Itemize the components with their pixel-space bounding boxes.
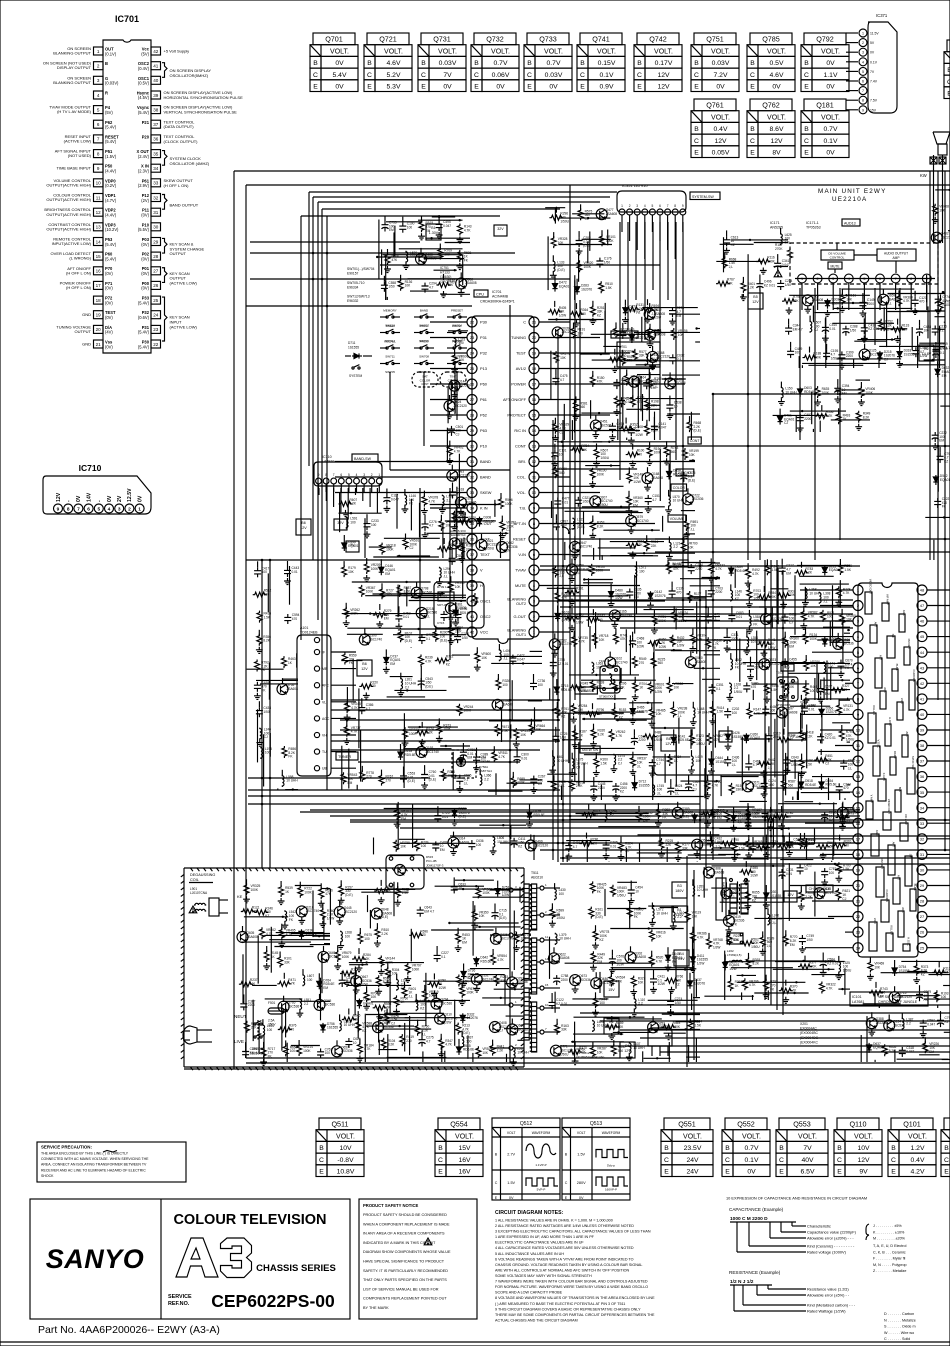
wire	[919, 1054, 940, 1056]
wire	[778, 803, 837, 805]
node label CONT	[688, 437, 701, 444]
wire	[472, 901, 474, 956]
svg-text:2: 2	[128, 507, 131, 513]
svg-text:2 ALL RESISTANCE RATED WATTA: 2 ALL RESISTANCE RATED WATTAGES ARE 1/4W…	[495, 1224, 634, 1228]
resistor R581	[573, 396, 588, 420]
capacitor C735	[418, 633, 433, 644]
transistor voltage table Q731	[418, 33, 466, 92]
svg-text:KZ: KZ	[620, 790, 624, 794]
node IC101 internal block AGC	[899, 610, 906, 632]
svg-text:1.5V: 1.5V	[577, 1153, 585, 1157]
potentiometer VR406	[858, 382, 875, 406]
capacitor C539	[933, 342, 950, 353]
svg-text:100K: 100K	[810, 637, 818, 641]
wire	[944, 1031, 950, 1033]
resistor R679	[582, 804, 601, 818]
wire	[830, 667, 832, 700]
svg-text:Q101: Q101	[903, 1120, 921, 1129]
diode D277	[622, 300, 641, 324]
wire	[659, 830, 661, 846]
svg-text:T511: T511	[531, 871, 539, 875]
resistor R414	[709, 701, 724, 725]
svg-text:(EX0004DC: (EX0004DC	[800, 1036, 819, 1040]
svg-text:FK: FK	[597, 890, 602, 894]
svg-text:1/50U: 1/50U	[486, 547, 495, 551]
diode D542	[933, 474, 950, 485]
wire	[723, 237, 725, 272]
svg-text:3: 3	[832, 277, 834, 281]
svg-text:EM: EM	[389, 228, 394, 232]
svg-text:4.7K: 4.7K	[464, 228, 471, 232]
wire	[549, 688, 551, 700]
node IC351 pin 8	[672, 204, 678, 222]
svg-text:1/50U: 1/50U	[846, 738, 855, 742]
svg-text:42: 42	[153, 49, 159, 54]
svg-text:Q110: Q110	[849, 1120, 866, 1129]
wire	[331, 740, 560, 742]
svg-text:12: 12	[856, 759, 861, 764]
resistor R159	[729, 783, 743, 795]
wire	[548, 319, 604, 321]
node IC101 pin 6	[853, 663, 863, 673]
svg-text:TD0124EB: TD0124EB	[300, 631, 318, 635]
svg-text:4.7: 4.7	[366, 707, 371, 711]
svg-text:0.7V: 0.7V	[547, 60, 561, 67]
svg-text:1/2W: 1/2W	[920, 354, 927, 358]
inductor L195	[261, 747, 272, 759]
svg-text:1.1VP-P: 1.1VP-P	[535, 1163, 546, 1167]
capacitor C703	[708, 581, 723, 597]
wire	[403, 713, 405, 750]
wire	[666, 847, 668, 862]
wire	[409, 600, 466, 602]
node CIRCUIT DIAGRAM NOTES text block	[495, 1210, 655, 1322]
resistor R196	[646, 442, 662, 466]
node IC351 pin 9	[680, 204, 686, 222]
node IC101 pin 36	[917, 772, 927, 782]
wire	[551, 501, 553, 518]
node IC171 pin 4	[844, 274, 853, 310]
inductor L325	[835, 956, 852, 980]
wire	[704, 995, 754, 997]
resistor R778	[360, 766, 374, 782]
wire IC710 band pin stubs	[319, 488, 377, 519]
node CPU pin 8 AFT-IN	[514, 519, 539, 529]
resistor R377	[798, 956, 817, 970]
wire	[773, 414, 824, 416]
svg-text:1/50U: 1/50U	[617, 893, 626, 897]
node IC101 internal block VIDEO DET	[865, 579, 873, 614]
svg-text:1.5K: 1.5K	[694, 1023, 701, 1027]
svg-text:0.7V: 0.7V	[745, 1145, 759, 1152]
svg-text:TIME BASE INPUT: TIME BASE INPUT	[57, 166, 92, 171]
svg-text:4: 4	[644, 204, 646, 208]
node IC171 pin 6	[876, 274, 885, 310]
transistor Q165	[609, 609, 632, 628]
wire	[571, 420, 573, 440]
wire	[574, 280, 576, 300]
resistor R642	[757, 758, 776, 777]
node IC710 pin 1	[135, 495, 144, 513]
resistor R703	[746, 584, 763, 608]
svg-text:29: 29	[470, 428, 475, 433]
svg-text:0.01: 0.01	[610, 844, 616, 848]
node IC101 internal block ATT	[875, 655, 883, 688]
svg-text:UE2210A: UE2210A	[832, 196, 867, 203]
svg-text:2.2K: 2.2K	[381, 932, 388, 936]
svg-text:OSCILLATOR (4MHZ): OSCILLATOR (4MHZ)	[170, 161, 210, 166]
svg-text:4.7K: 4.7K	[497, 958, 504, 962]
wire	[790, 705, 830, 707]
svg-text:WAVEFORM: WAVEFORM	[532, 1131, 551, 1135]
svg-text:38: 38	[153, 107, 159, 112]
wire	[599, 972, 601, 993]
wire	[640, 1037, 950, 1039]
svg-text:7V: 7V	[443, 72, 452, 79]
svg-text:1: 1	[857, 588, 860, 593]
wire	[752, 995, 754, 1000]
capacitor C411	[511, 837, 526, 849]
resistor R284	[757, 586, 776, 600]
svg-text:0.4V: 0.4V	[911, 1157, 925, 1164]
potentiometer VR118	[380, 543, 396, 555]
node IC101 internal block H.OSC	[903, 937, 911, 951]
svg-text:FM DET: FM DET	[880, 859, 884, 870]
svg-text:BAND OUTPUT: BAND OUTPUT	[170, 202, 199, 207]
node IC101 pin 29	[917, 881, 927, 891]
node IC101 internal block FM DET	[904, 639, 911, 665]
svg-text:30: 30	[470, 444, 475, 449]
svg-text:(D,E): (D,E)	[381, 915, 388, 919]
wire	[655, 551, 950, 553]
svg-text:15V: 15V	[608, 988, 615, 992]
diode D518	[799, 774, 817, 790]
wire	[517, 1039, 524, 1041]
wire	[720, 243, 754, 245]
potentiometer VR662	[707, 733, 723, 745]
wire	[387, 1057, 447, 1059]
svg-text:0V: 0V	[335, 60, 344, 67]
svg-text:VOLT.: VOLT.	[683, 1133, 702, 1140]
resistor R160	[319, 904, 334, 928]
svg-text:1S1555: 1S1555	[904, 352, 915, 356]
svg-text:AC/N4MB: AC/N4MB	[492, 295, 509, 299]
transistor Q119	[449, 537, 470, 549]
wire	[562, 420, 564, 862]
svg-text:EM: EM	[426, 229, 431, 233]
svg-text:(D,E): (D,E)	[459, 815, 466, 819]
wire	[470, 968, 509, 970]
svg-text:FK: FK	[289, 918, 294, 922]
svg-text:CT15: CT15	[437, 621, 445, 625]
resistor R539	[667, 562, 681, 574]
wire	[743, 662, 824, 664]
svg-text:VOL.: VOL.	[517, 490, 526, 495]
svg-text:B: B	[804, 60, 809, 67]
svg-text:1/50: 1/50	[768, 783, 774, 787]
svg-text:EQA01: EQA01	[940, 478, 950, 482]
svg-text:1K: 1K	[579, 734, 584, 738]
node IC101 internal block SYNC SEP	[907, 756, 915, 794]
svg-text:10 UHH: 10 UHH	[673, 499, 685, 503]
node IC710 pin 4	[354, 473, 360, 492]
wire	[263, 1034, 265, 1062]
svg-text:(4.4V): (4.4V)	[105, 213, 117, 218]
resistor R767	[379, 770, 393, 786]
resistor R510	[599, 281, 613, 293]
svg-text:15V: 15V	[870, 108, 877, 112]
wire	[792, 797, 794, 800]
crystal X710 OSD oscillator enclosure	[434, 582, 484, 628]
svg-text:100: 100	[502, 683, 508, 687]
node IC701 pin 37 P21	[142, 120, 161, 128]
svg-text:1/50U: 1/50U	[751, 945, 760, 949]
svg-text:0.047: 0.047	[391, 497, 399, 501]
wire	[473, 896, 525, 898]
svg-text:5: 5	[97, 507, 100, 513]
wire	[431, 929, 494, 931]
svg-text:7: 7	[862, 89, 864, 93]
svg-text:TIMER: TIMER	[385, 324, 395, 328]
capacitor C683	[728, 606, 743, 622]
potentiometer VR560	[476, 886, 492, 898]
svg-text:100K: 100K	[251, 888, 259, 892]
resistor R365	[701, 808, 720, 827]
capacitor C760	[421, 765, 436, 789]
wire	[331, 709, 560, 711]
wire	[583, 579, 612, 581]
wire	[545, 207, 565, 209]
inductor L268	[802, 588, 821, 607]
svg-text:10K: 10K	[459, 358, 466, 362]
node wire junction dots	[261, 252, 947, 860]
svg-text:6.5V: 6.5V	[801, 1169, 815, 1176]
svg-text:AFT ON/OFF: AFT ON/OFF	[503, 397, 527, 402]
node CPU pin 9 T.B.	[519, 503, 539, 513]
resistor R664	[283, 1040, 297, 1056]
wire	[812, 306, 814, 323]
wire	[659, 222, 661, 440]
svg-text:(DATA OUTPUT): (DATA OUTPUT)	[164, 124, 195, 129]
wire	[573, 1033, 623, 1035]
capacitor C468	[629, 632, 644, 649]
wire	[771, 608, 773, 629]
capacitor C755	[382, 216, 397, 233]
svg-text:EM: EM	[942, 374, 947, 378]
svg-text:RD5.6E: RD5.6E	[534, 813, 545, 817]
wire	[432, 216, 455, 218]
transistor Q486	[833, 633, 854, 650]
node IC171 pin 7	[891, 274, 900, 310]
svg-text:4.7K: 4.7K	[425, 659, 432, 663]
svg-text:E: E	[694, 150, 699, 157]
wire	[563, 404, 565, 440]
wire	[494, 500, 496, 517]
svg-text:CJ: CJ	[456, 433, 460, 437]
svg-text:SERVICE: SERVICE	[168, 1294, 192, 1300]
resistor R316	[441, 769, 456, 781]
capacitor C722	[613, 378, 628, 389]
potentiometer VR425	[590, 881, 606, 894]
wire	[937, 1005, 939, 1008]
node IC101 pin 1	[853, 585, 863, 595]
svg-text:TQF-1337L: TQF-1337L	[800, 704, 816, 708]
svg-text:4.7K: 4.7K	[715, 567, 722, 571]
svg-text:PROG: PROG	[420, 340, 430, 344]
wire	[441, 1045, 443, 1062]
svg-text:KE: KE	[237, 894, 243, 899]
resistor R401	[740, 277, 755, 301]
resistor R436	[257, 611, 271, 623]
svg-text:TUNING: TUNING	[511, 335, 526, 340]
wire	[400, 628, 461, 630]
resistor R465	[803, 680, 818, 704]
node SYSTEM-SW label	[690, 192, 720, 200]
wire	[788, 863, 790, 921]
transistor Q648	[371, 908, 392, 920]
svg-text:H7133: H7133	[440, 271, 450, 275]
diode D211	[822, 564, 839, 575]
svg-text:VOLT.: VOLT.	[711, 114, 730, 121]
svg-text:10K: 10K	[656, 934, 663, 938]
svg-text:47K: 47K	[597, 380, 604, 384]
wire	[917, 336, 919, 368]
svg-text:OUT1: OUT1	[516, 633, 526, 637]
diode D753	[495, 881, 513, 898]
diode D356	[819, 701, 837, 717]
wire	[603, 345, 621, 347]
svg-text:24V: 24V	[686, 1157, 699, 1164]
node IC701 pin 31 P11	[141, 208, 160, 218]
wire	[477, 926, 520, 928]
resistor R124	[415, 722, 434, 746]
capacitor C792	[750, 837, 765, 853]
svg-text:AREA, CONNECT AN ISOLATING TRA: AREA, CONNECT AN ISOLATING TRANSFORMER B…	[41, 1163, 147, 1167]
svg-text:27: 27	[153, 269, 159, 274]
svg-text:(0V): (0V)	[141, 242, 149, 247]
svg-text:J,L: J,L	[560, 574, 564, 578]
svg-text:1/2W: 1/2W	[658, 982, 665, 986]
svg-text:1.5V: 1.5V	[507, 1181, 515, 1185]
transistor voltage table Q104	[941, 1118, 950, 1177]
resistor R722	[614, 322, 628, 338]
svg-text:1/50U: 1/50U	[601, 456, 610, 460]
inductor L354	[744, 631, 763, 655]
svg-text:J . . . . . . . . . ±5%: J . . . . . . . . . ±5%	[873, 1224, 902, 1228]
node IC710 pin 2	[125, 488, 134, 513]
resistor R577	[632, 349, 646, 361]
svg-text:WAVEFORM: WAVEFORM	[602, 1131, 621, 1135]
node TUNER label	[336, 752, 358, 760]
wire	[801, 703, 803, 729]
svg-text:0.1: 0.1	[940, 351, 945, 355]
svg-text:B: B	[750, 126, 755, 133]
resistor R265	[555, 587, 569, 603]
svg-text:E: E	[421, 84, 426, 91]
resistor R382	[655, 803, 670, 827]
node supply rail B4 24V	[674, 950, 689, 966]
wire	[408, 278, 471, 280]
wire	[817, 302, 868, 304]
wire	[899, 364, 945, 366]
svg-text:26: 26	[470, 382, 475, 387]
wire	[404, 1023, 406, 1052]
svg-text:1: 1	[138, 507, 141, 513]
potentiometer VR300	[783, 632, 799, 649]
wire	[797, 564, 850, 566]
svg-text:0.05V: 0.05V	[712, 150, 730, 157]
wire	[688, 1045, 690, 1062]
svg-text:100: 100	[770, 709, 776, 713]
svg-text:2200: 2200	[773, 735, 780, 739]
svg-text:VOLUME: VOLUME	[670, 517, 685, 521]
svg-text:C: C	[637, 72, 642, 79]
inductor L262 LT369 label	[727, 949, 743, 962]
svg-text:PROG.: PROG.	[452, 324, 462, 328]
node IC101 internal block ATT	[893, 875, 901, 904]
wire	[926, 275, 928, 303]
wire	[479, 824, 526, 826]
svg-text:10 EXPRESSION OF CAPACITANCE: 10 EXPRESSION OF CAPACITANCE AND RESISTA…	[726, 1196, 867, 1201]
wire	[739, 800, 767, 802]
resistor R793	[763, 975, 778, 999]
svg-text:(4.5V): (4.5V)	[138, 95, 150, 100]
wire	[257, 935, 259, 983]
svg-text:100: 100	[829, 871, 835, 875]
svg-text:C: C	[750, 138, 755, 145]
resistor R145	[263, 946, 278, 970]
capacitor C151	[645, 494, 660, 513]
svg-text:10K: 10K	[599, 638, 606, 642]
diode D308	[477, 516, 495, 527]
wire	[244, 916, 288, 918]
node supply rail B1 1.30V	[426, 224, 441, 240]
wire	[704, 768, 706, 798]
wire	[711, 887, 746, 889]
svg-text:SW701(...)/SW704: SW701(...)/SW704	[347, 267, 375, 271]
svg-text:C714: C714	[452, 621, 460, 625]
transistor Q659	[878, 289, 899, 306]
svg-text:CAPACITANCE (Example): CAPACITANCE (Example)	[729, 1207, 784, 1212]
wire	[250, 278, 570, 280]
potentiometer VR319	[422, 985, 438, 1001]
svg-text:32: 32	[920, 836, 925, 841]
wire	[265, 998, 303, 1000]
wire	[571, 1041, 624, 1043]
svg-text:(2V): (2V)	[141, 198, 149, 203]
svg-text:RESET: RESET	[513, 537, 527, 542]
diode D736	[460, 964, 479, 988]
wire	[371, 1001, 443, 1003]
svg-text:100: 100	[559, 892, 565, 896]
svg-text:1/50U: 1/50U	[560, 219, 569, 223]
wire	[583, 764, 585, 784]
svg-text:P20: P20	[142, 134, 150, 139]
wire	[489, 720, 542, 722]
svg-text:9: 9	[857, 712, 860, 717]
svg-text:(0.2V): (0.2V)	[105, 183, 117, 188]
resistor R423	[569, 779, 583, 791]
node IC710 pin 4	[105, 495, 114, 513]
resistor R302	[777, 589, 796, 608]
svg-text:5.2V: 5.2V	[387, 72, 401, 79]
inductor L606	[490, 836, 509, 855]
wire	[557, 330, 559, 862]
svg-text:P32: P32	[480, 351, 487, 356]
resistor R700	[836, 862, 851, 882]
svg-text:1.5K: 1.5K	[502, 729, 509, 733]
resistor R562	[816, 841, 835, 860]
